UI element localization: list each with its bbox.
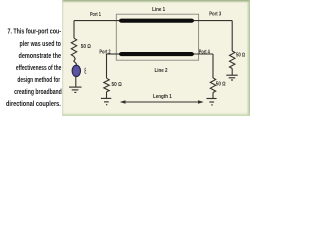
label 50 ohm R1 <box>81 44 92 50</box>
source V1 (signal generator) <box>72 65 80 76</box>
svg-text:Line 2: Line 2 <box>155 68 168 74</box>
resistor R1 50 ohm (Port 1 termination) <box>71 38 76 56</box>
svg-text:Port 3: Port 3 <box>209 11 221 17</box>
svg-text:Port 1: Port 1 <box>90 12 101 18</box>
svg-text:effectiveness of the: effectiveness of the <box>16 63 61 72</box>
resistor R4 50 ohm (Port 4 termination) <box>210 78 215 93</box>
label Port 1 <box>90 12 101 18</box>
svg-text:Length 1: Length 1 <box>153 94 172 100</box>
label Line 2 <box>155 68 168 74</box>
dimension arrow Length 1 <box>120 100 204 103</box>
wire Port 1 horizontal <box>74 20 120 22</box>
label Port 2 <box>99 49 110 55</box>
wire Port 4 vertical <box>212 54 214 78</box>
svg-text:demonstrate the: demonstrate the <box>19 51 62 60</box>
svg-text:pler was used to: pler was used to <box>20 39 62 48</box>
figure panel background <box>62 0 250 116</box>
wire Port 1 vertical <box>73 21 75 39</box>
svg-text:50 Ω: 50 Ω <box>216 82 226 88</box>
caption text <box>6 27 62 109</box>
ground (Port 2) <box>101 98 111 104</box>
svg-text:50 Ω: 50 Ω <box>112 82 123 88</box>
ground (Port 4) <box>207 99 217 105</box>
label 50 ohm R4 <box>216 82 226 88</box>
svg-text:50 Ω: 50 Ω <box>236 53 246 59</box>
wire R2 to ground <box>106 92 108 98</box>
ground (source) <box>69 87 81 92</box>
ground (Port 3) <box>226 75 237 80</box>
svg-text:creating broadband: creating broadband <box>14 87 62 96</box>
label Port 3 <box>209 11 221 17</box>
resistor R2 50 ohm (Port 2 termination) <box>104 78 109 92</box>
transmission line Line 1 <box>119 19 194 23</box>
label Port 4 <box>199 49 210 55</box>
resistor R3 50 ohm (Port 3 termination) <box>230 51 235 69</box>
svg-text:50 Ω: 50 Ω <box>81 44 92 50</box>
wire R4 to ground <box>212 93 214 99</box>
svg-text:7. This four-port cou-: 7. This four-port cou- <box>8 27 62 36</box>
svg-text:Line 1: Line 1 <box>152 7 165 13</box>
wire Port 3 vertical <box>231 21 233 51</box>
wire R3 to ground <box>231 69 233 76</box>
wire Port 2 vertical <box>106 54 108 78</box>
wire Port 2 horizontal <box>107 53 120 55</box>
wire resistor to source <box>74 57 77 66</box>
svg-text:Port 4: Port 4 <box>199 49 210 55</box>
wire Port 4 horizontal <box>194 53 214 55</box>
wire Port 3 horizontal <box>194 20 233 22</box>
svg-text:design method for: design method for <box>17 75 60 84</box>
wire source to ground <box>75 76 77 86</box>
label Length 1 <box>153 94 172 100</box>
svg-text:Port 2: Port 2 <box>99 49 110 55</box>
label Line 1 <box>152 7 165 13</box>
label 50 ohm R2 <box>112 82 123 88</box>
tiny source label <box>85 68 87 74</box>
svg-text:directional couplers.: directional couplers. <box>6 99 61 108</box>
coupled-line box outline <box>116 14 198 60</box>
label 50 ohm R3 <box>236 53 246 59</box>
transmission line Line 2 <box>119 52 194 56</box>
